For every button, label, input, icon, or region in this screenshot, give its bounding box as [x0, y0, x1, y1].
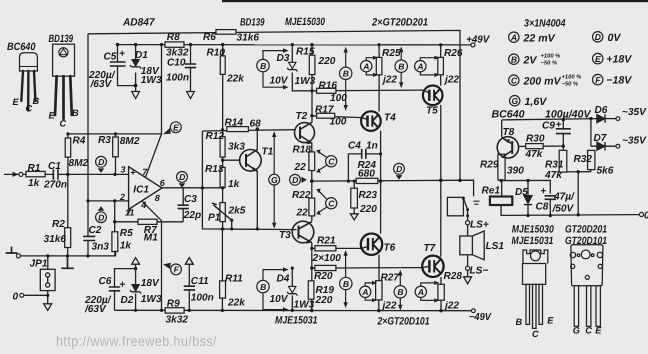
- svg-text:D: D: [396, 164, 402, 174]
- svg-text:22k: 22k: [227, 297, 246, 308]
- svg-text:+: +: [541, 186, 547, 197]
- svg-text:j22: j22: [443, 75, 459, 86]
- svg-text:D: D: [179, 172, 185, 182]
- svg-text:3k32: 3k32: [166, 315, 189, 326]
- svg-text:1n: 1n: [366, 141, 378, 152]
- svg-text:G: G: [573, 326, 580, 336]
- svg-text:1W3: 1W3: [141, 75, 162, 86]
- svg-text:R31: R31: [545, 160, 564, 171]
- svg-text:+18V: +18V: [606, 54, 632, 66]
- svg-text:4: 4: [140, 200, 146, 210]
- svg-text:D: D: [595, 32, 601, 42]
- svg-text:R1: R1: [28, 163, 41, 174]
- svg-text:R11: R11: [225, 274, 243, 285]
- svg-text:R5: R5: [120, 228, 133, 239]
- svg-text:D6: D6: [595, 105, 608, 116]
- svg-text:B: B: [516, 317, 523, 327]
- svg-text:D: D: [98, 157, 104, 167]
- svg-text:1k: 1k: [228, 179, 241, 190]
- svg-text:R3: R3: [98, 135, 111, 146]
- svg-text:/63V: /63V: [84, 304, 107, 315]
- svg-text:R8: R8: [167, 32, 180, 43]
- svg-text:E: E: [173, 123, 179, 133]
- svg-text:C2: C2: [89, 225, 102, 236]
- svg-text:M1: M1: [144, 233, 158, 244]
- svg-text:P1: P1: [208, 213, 221, 224]
- svg-text:R10: R10: [207, 48, 226, 59]
- svg-text:18V: 18V: [141, 278, 160, 289]
- svg-text:GT20D201: GT20D201: [565, 224, 607, 236]
- svg-text:A: A: [362, 62, 369, 72]
- svg-text:JP1: JP1: [30, 258, 48, 269]
- svg-text:R14: R14: [225, 118, 244, 129]
- svg-text:+: +: [556, 119, 562, 130]
- svg-text:1k: 1k: [120, 241, 133, 252]
- svg-text:C: C: [26, 104, 33, 114]
- svg-text:E: E: [595, 54, 601, 64]
- svg-text:5k6: 5k6: [597, 166, 614, 177]
- svg-text:220: 220: [359, 204, 377, 215]
- svg-text:http://www.freeweb.hu/bss/: http://www.freeweb.hu/bss/: [56, 334, 217, 350]
- svg-text:47k: 47k: [544, 170, 563, 181]
- svg-text:R30: R30: [526, 134, 545, 145]
- svg-text:C: C: [328, 199, 335, 209]
- svg-text:0: 0: [644, 211, 648, 222]
- svg-text:22 mV: 22 mV: [523, 32, 556, 44]
- svg-text:+: +: [120, 280, 126, 291]
- svg-text:MJE15031: MJE15031: [512, 235, 554, 247]
- svg-text:31k6: 31k6: [237, 33, 260, 44]
- svg-text:68: 68: [250, 119, 262, 130]
- svg-text:B: B: [397, 287, 403, 297]
- svg-text:1k: 1k: [28, 178, 41, 189]
- svg-text:T3: T3: [279, 230, 291, 241]
- svg-text:B: B: [72, 108, 79, 118]
- svg-text:11: 11: [125, 208, 134, 218]
- svg-text:C10: C10: [167, 58, 186, 69]
- svg-text:C: C: [511, 76, 518, 86]
- svg-text:T6: T6: [384, 242, 396, 253]
- svg-text:2V: 2V: [523, 54, 538, 66]
- svg-text:47µ/: 47µ/: [553, 192, 575, 203]
- svg-text:D7: D7: [594, 133, 608, 144]
- svg-text:~35V: ~35V: [622, 107, 647, 118]
- svg-text:T7: T7: [424, 243, 437, 254]
- svg-text:100n: 100n: [191, 292, 214, 303]
- svg-text:C: C: [585, 326, 592, 336]
- svg-text:8: 8: [155, 193, 160, 203]
- svg-text:+100 %: +100 %: [562, 74, 582, 81]
- svg-text:100: 100: [330, 93, 347, 104]
- svg-text:C6: C6: [99, 276, 112, 287]
- svg-text:G: G: [512, 96, 519, 106]
- svg-text:A: A: [361, 287, 368, 297]
- svg-text:B: B: [343, 279, 349, 289]
- svg-text:B: B: [343, 69, 349, 79]
- svg-text:R22: R22: [292, 190, 311, 201]
- svg-text:BD139: BD139: [240, 16, 265, 28]
- svg-text:R18: R18: [293, 145, 312, 156]
- svg-text:GT20D101: GT20D101: [565, 235, 607, 247]
- svg-text:T1: T1: [262, 147, 274, 158]
- svg-text:R6: R6: [203, 32, 216, 43]
- svg-text:680: 680: [358, 169, 375, 180]
- svg-text:22p: 22p: [183, 210, 201, 221]
- svg-text:3×1N4004: 3×1N4004: [524, 18, 566, 30]
- svg-text:T5: T5: [426, 106, 438, 117]
- svg-text:200 mV: 200 mV: [523, 75, 562, 87]
- svg-text:B: B: [33, 96, 40, 106]
- svg-text:D4: D4: [277, 274, 290, 285]
- svg-text:100: 100: [330, 117, 347, 128]
- svg-text:1W3: 1W3: [294, 300, 315, 311]
- svg-text:MJE15031: MJE15031: [275, 314, 318, 326]
- svg-text:G: G: [271, 175, 278, 185]
- svg-text:R2: R2: [52, 219, 65, 230]
- svg-text:−49V: −49V: [469, 312, 492, 323]
- svg-text:R9: R9: [167, 299, 180, 310]
- svg-text:R13: R13: [205, 164, 224, 175]
- svg-text:270n: 270n: [43, 179, 67, 190]
- svg-text:A: A: [510, 33, 517, 43]
- svg-text:R21: R21: [317, 235, 336, 246]
- svg-text:22: 22: [296, 208, 309, 219]
- svg-text:R12: R12: [206, 131, 225, 142]
- svg-text:390: 390: [507, 166, 524, 177]
- svg-text:2k5: 2k5: [228, 206, 246, 217]
- svg-text:1,6V: 1,6V: [525, 96, 548, 108]
- svg-text:B: B: [260, 61, 266, 71]
- svg-text:R28: R28: [444, 271, 463, 282]
- svg-text:C: C: [328, 157, 335, 167]
- svg-text:+: +: [130, 167, 135, 177]
- svg-text:D: D: [292, 175, 298, 185]
- svg-text:T8: T8: [503, 127, 515, 138]
- svg-text:R20: R20: [314, 271, 333, 282]
- svg-text:B: B: [511, 55, 517, 65]
- svg-text:R26: R26: [444, 48, 463, 59]
- svg-text:R23: R23: [359, 190, 378, 201]
- svg-text:B: B: [398, 62, 404, 72]
- svg-text:220: 220: [315, 295, 333, 306]
- svg-text:T4: T4: [384, 113, 396, 124]
- svg-text:3k3: 3k3: [228, 141, 245, 152]
- svg-text:/63V: /63V: [90, 79, 113, 90]
- svg-text:R15: R15: [296, 47, 315, 58]
- svg-text:C8: C8: [536, 202, 549, 213]
- svg-text:C9: C9: [542, 121, 555, 132]
- svg-text:E: E: [595, 326, 602, 336]
- svg-text:R16: R16: [319, 81, 338, 92]
- svg-text:+49V: +49V: [466, 35, 490, 46]
- svg-text:C5: C5: [104, 52, 117, 63]
- svg-text:D2: D2: [121, 295, 134, 306]
- svg-text:E: E: [547, 316, 554, 326]
- svg-text:IC1: IC1: [133, 184, 149, 195]
- svg-text:−50 %: −50 %: [541, 60, 558, 67]
- svg-text:8M2: 8M2: [69, 158, 89, 169]
- svg-text:1W3: 1W3: [295, 76, 316, 87]
- svg-text:10V: 10V: [270, 294, 289, 305]
- svg-text:0: 0: [13, 292, 19, 303]
- svg-text:0V: 0V: [608, 32, 622, 44]
- svg-text:+100 %: +100 %: [541, 53, 561, 60]
- svg-text:2×GT20D201: 2×GT20D201: [371, 16, 428, 28]
- svg-text:D3: D3: [277, 53, 290, 64]
- svg-text:R25: R25: [382, 48, 401, 59]
- svg-text:E: E: [13, 97, 20, 107]
- svg-text:100n: 100n: [166, 72, 189, 83]
- svg-text:C: C: [532, 329, 539, 339]
- svg-text:LS+: LS+: [470, 219, 489, 230]
- svg-text:31k6: 31k6: [44, 234, 67, 245]
- svg-text:E: E: [49, 111, 56, 121]
- svg-text:C11: C11: [191, 276, 209, 287]
- svg-text:100µ/40V: 100µ/40V: [545, 109, 591, 121]
- svg-text:R4: R4: [73, 135, 86, 146]
- svg-text:AD847: AD847: [122, 17, 156, 29]
- svg-text:LS−: LS−: [470, 265, 489, 276]
- svg-text:C4: C4: [348, 141, 361, 152]
- svg-text:2: 2: [119, 192, 125, 202]
- svg-text:R27: R27: [381, 272, 401, 283]
- svg-text:F: F: [174, 265, 180, 275]
- svg-text:2×100: 2×100: [312, 253, 342, 264]
- svg-text:T2: T2: [296, 111, 308, 122]
- svg-text:j22: j22: [381, 301, 397, 312]
- svg-text:D1: D1: [135, 50, 148, 61]
- svg-text:−50 %: −50 %: [562, 81, 579, 88]
- svg-text:BC640: BC640: [492, 109, 525, 121]
- svg-text:+: +: [119, 49, 125, 60]
- svg-text:C: C: [60, 119, 67, 129]
- svg-text:3: 3: [121, 165, 126, 175]
- svg-text:D: D: [98, 213, 104, 223]
- svg-text:3n3: 3n3: [92, 241, 110, 252]
- svg-text:MJE15030: MJE15030: [285, 16, 325, 28]
- svg-text:R29: R29: [480, 160, 499, 171]
- svg-text:1W3: 1W3: [141, 294, 162, 305]
- svg-text:D5: D5: [515, 187, 528, 198]
- svg-text:BD139: BD139: [49, 33, 74, 45]
- svg-text:−18V: −18V: [606, 75, 632, 87]
- svg-text:C3: C3: [184, 194, 197, 205]
- svg-text:LS1: LS1: [486, 241, 505, 252]
- svg-text:2×GT20D101: 2×GT20D101: [377, 315, 430, 327]
- svg-text:Re1: Re1: [482, 186, 501, 197]
- svg-text:F: F: [595, 75, 601, 85]
- svg-text:22: 22: [294, 162, 307, 173]
- svg-text:A: A: [416, 62, 423, 72]
- svg-text:~35V: ~35V: [622, 135, 647, 146]
- svg-text:47k: 47k: [525, 149, 544, 160]
- svg-text:A: A: [417, 287, 424, 297]
- svg-text:C1: C1: [48, 161, 61, 172]
- svg-text:MJE15030: MJE15030: [512, 224, 554, 236]
- svg-text:j22: j22: [443, 301, 459, 312]
- svg-text:j22: j22: [381, 75, 397, 86]
- svg-text:22k: 22k: [226, 74, 245, 85]
- svg-text:R32: R32: [574, 154, 593, 165]
- svg-text:R17: R17: [315, 105, 335, 116]
- svg-text:/50V: /50V: [552, 203, 575, 214]
- svg-text:220: 220: [318, 56, 336, 67]
- svg-text:BC640: BC640: [7, 41, 36, 53]
- svg-text:B: B: [260, 282, 266, 292]
- svg-text:10V: 10V: [270, 76, 289, 87]
- svg-text:8M2: 8M2: [120, 136, 140, 147]
